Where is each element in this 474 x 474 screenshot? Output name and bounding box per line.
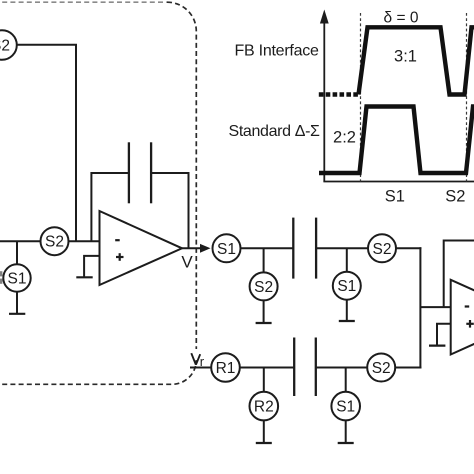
dashed boundary top/right of first integrator [0, 2, 196, 349]
stub to S1 shunt bottom [345, 368, 347, 393]
op-amp U1 [100, 211, 183, 285]
wire S2 to bus [396, 247, 421, 249]
timing diagram y-axis [323, 21, 325, 182]
svg-text:S1: S1 [336, 399, 355, 416]
svg-text:3:1: 3:1 [394, 48, 417, 66]
feedback wire left [91, 173, 128, 241]
svg-text:R2: R2 [254, 399, 274, 416]
wire top row right of C2 [316, 247, 368, 249]
svg-text:S2: S2 [373, 241, 392, 258]
svg-text:2:2: 2:2 [333, 129, 356, 147]
wire from S2 top to inverting input [17, 45, 76, 241]
wire to ground [346, 300, 348, 321]
phase divider dashed S1 start [360, 13, 362, 182]
svg-text:V: V [181, 253, 193, 272]
capacitor C1 (integrator feedback) [129, 142, 151, 203]
ground [9, 313, 25, 315]
wire top row left of C2 [241, 247, 294, 249]
svg-text:Standard Δ-Σ: Standard Δ-Σ [229, 123, 321, 140]
standard delta-sigma waveform [319, 107, 474, 174]
timing diagram x-axis [323, 181, 474, 183]
ground on + input of U2 [437, 324, 451, 345]
arrowhead on output [200, 244, 211, 253]
wire bottom row left of C3 [240, 367, 294, 369]
op-amp U2 (clipped at right) [451, 280, 474, 355]
svg-text:S1: S1 [217, 241, 236, 258]
ground [338, 442, 354, 444]
svg-text:S2: S2 [372, 360, 391, 377]
phase divider dashed S2 end [466, 13, 468, 182]
switch S1 (shunt, top row) [333, 272, 361, 300]
wire to ground [345, 420, 347, 442]
svg-text:S1: S1 [385, 188, 405, 206]
ground [256, 322, 272, 324]
svg-text:S2: S2 [254, 279, 273, 296]
stub to R2 shunt [263, 368, 265, 393]
wire S2 to op-amp [69, 240, 100, 242]
wire S2 to bus [395, 367, 421, 369]
ground [256, 442, 272, 444]
wire bus to U2 inverting input [420, 306, 451, 308]
svg-text:FB Interface: FB Interface [235, 43, 320, 60]
switch R1 (series, bottom row) [211, 353, 240, 382]
wire node Vr to R1 [190, 367, 211, 369]
switch S2 (series, top row) [368, 234, 396, 262]
switch S2 (shunt, top row) [250, 272, 278, 300]
ground [339, 320, 355, 322]
wire stub to switch S1 [16, 241, 18, 264]
switch R2 (shunt, bottom row) [249, 392, 278, 421]
svg-text:δ = 0: δ = 0 [384, 10, 419, 27]
arrow into node Vr [191, 353, 200, 365]
switch S2 (series, input) [41, 227, 69, 255]
FB interface waveform (dashed lead-in) [319, 92, 359, 96]
capacitor C3 (bottom sampling cap) [294, 338, 316, 397]
svg-text:S2: S2 [445, 188, 465, 206]
capacitor C2 (top sampling cap) [293, 218, 316, 279]
svg-text:R1: R1 [216, 360, 236, 377]
wire input left [0, 240, 41, 242]
switch S1 (shunt, bottom row) [331, 392, 360, 421]
ground on + input of U1 [84, 256, 99, 277]
dashed boundary bottom of first integrator [0, 360, 196, 384]
bus wire joining both rows [419, 247, 421, 368]
switch S2 (top-left, clipped) [0, 30, 17, 60]
svg-text:S1: S1 [8, 271, 27, 288]
stub to S1 shunt [346, 248, 348, 271]
svg-text:S2: S2 [45, 234, 64, 251]
feedback wire of U2 [444, 241, 474, 308]
switch S1 (to ground) [3, 264, 30, 291]
output wire of U1 [180, 247, 202, 249]
FB interface waveform [359, 27, 474, 94]
switch S1 (series, to sampling cap) [213, 234, 241, 262]
feedback wire right [151, 173, 188, 248]
stub to S2 shunt [263, 248, 265, 272]
switch S2 (series, bottom row) [367, 354, 395, 382]
wire bottom row right of C3 [316, 367, 367, 369]
wire to ground [263, 300, 265, 322]
svg-text:S2: S2 [0, 38, 10, 55]
svg-text:S1: S1 [337, 278, 356, 295]
wire S1 to ground [16, 292, 18, 314]
wire to ground [263, 420, 265, 442]
clipped arrow at left edge [0, 271, 2, 284]
